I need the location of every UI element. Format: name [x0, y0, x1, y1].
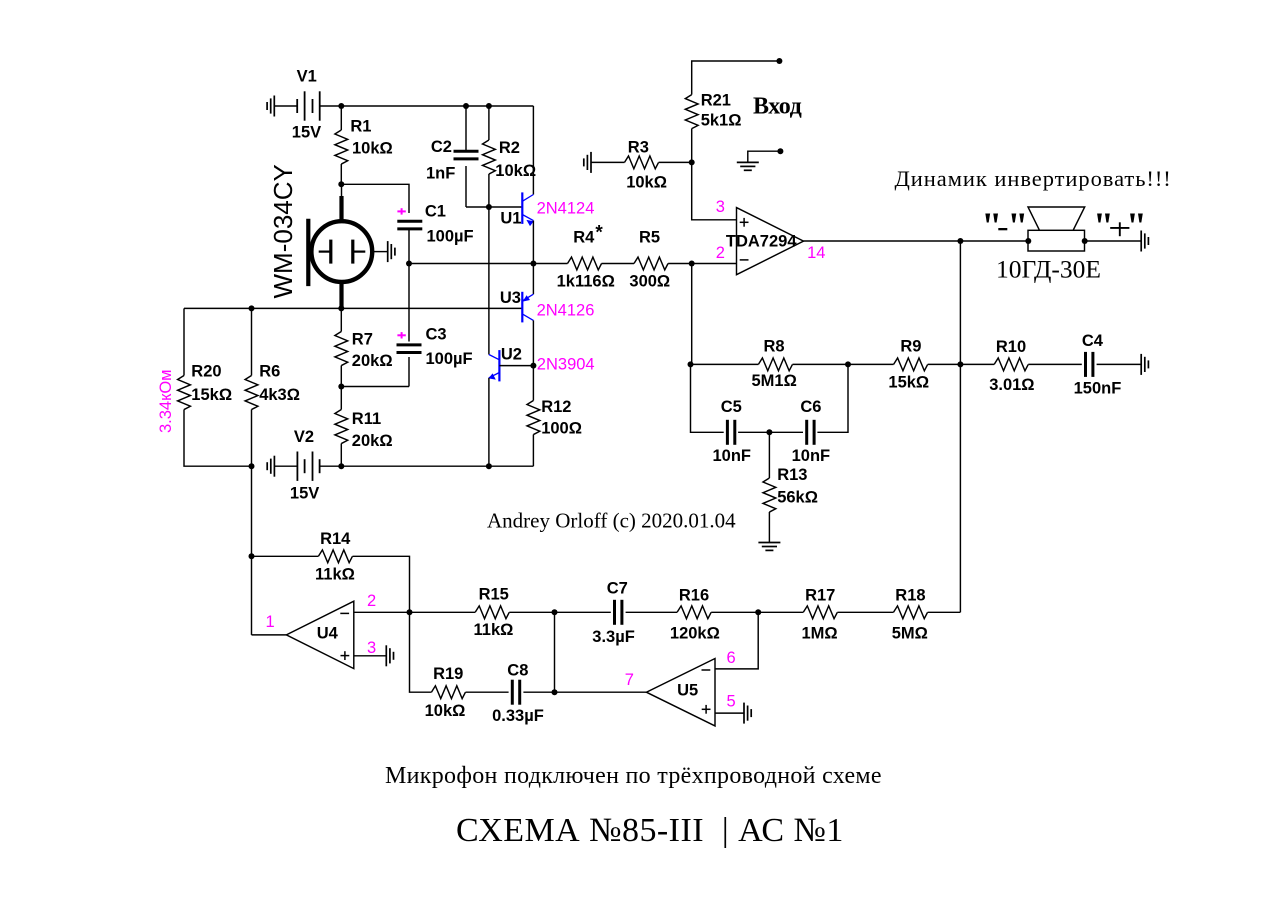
microphone WM-034CY: [268, 164, 388, 308]
ground (R13): [758, 543, 780, 551]
wire (node A to C1 branch): [341, 184, 409, 213]
wire (R19 branch): [410, 612, 432, 692]
node (R20 / R6 / U4 column): [249, 463, 255, 469]
svg-text:R3: R3: [628, 139, 649, 157]
svg-text:7: 7: [625, 671, 634, 689]
wire (speaker to ground): [1085, 240, 1142, 242]
svg-text:10kΩ: 10kΩ: [626, 173, 667, 191]
ground (C4): [1141, 354, 1148, 375]
wire (R2 node down to U2 collector): [488, 207, 490, 355]
svg-text:2: 2: [367, 592, 376, 610]
wire (R16 to R17): [711, 611, 803, 613]
label "-": [981, 206, 1028, 248]
node (R2 top): [486, 103, 492, 109]
node (U2 base / R12 top): [530, 363, 536, 369]
resistor R2 leads: [488, 106, 490, 140]
svg-text:U3: U3: [500, 289, 521, 307]
wire (C1 bottom node to R4): [409, 263, 568, 265]
resistor R20: [178, 363, 232, 410]
resistor R20 leads: [183, 308, 185, 375]
svg-text:C1: C1: [425, 203, 446, 221]
capacitor C1 leads: [408, 228, 410, 263]
resistor R11: [335, 410, 393, 450]
speaker 10ГД-30Е: [996, 207, 1101, 284]
svg-text:10ГД-30Е: 10ГД-30Е: [996, 255, 1101, 284]
svg-text:C7: C7: [607, 579, 628, 597]
svg-text:5k1Ω: 5k1Ω: [701, 111, 742, 129]
wire (R17 to R18): [837, 611, 893, 613]
node (C8 / U5 output): [552, 689, 558, 695]
wire (C3 branch): [408, 264, 410, 342]
wire (V2 to bottom rail): [320, 465, 341, 467]
resistor R4: [557, 223, 615, 291]
node (R5 / op-amp inverting input / feedback): [689, 261, 695, 267]
svg-text:R16: R16: [679, 587, 709, 605]
resistor R5: [629, 229, 670, 291]
svg-text:5MΩ: 5MΩ: [892, 624, 928, 642]
svg-text:R19: R19: [433, 665, 463, 683]
node (U1 emitter / U3 emitter / R4): [530, 261, 536, 267]
svg-text:U4: U4: [317, 624, 339, 642]
svg-text:U2: U2: [501, 346, 522, 364]
svg-text:R5: R5: [639, 229, 660, 247]
resistor R14: [315, 530, 355, 584]
resistor R1 leads: [340, 106, 342, 130]
svg-text:0.33µF: 0.33µF: [492, 707, 544, 725]
node (V2 / R11 bottom): [338, 463, 344, 469]
resistor R1: [335, 118, 393, 164]
transistor U1 2N4124 (NPN): [500, 192, 594, 227]
node (R6 top): [249, 305, 255, 311]
node (R7 / R11 / C3): [338, 384, 344, 390]
wire (R19 to C8): [466, 691, 509, 693]
svg-text:R1: R1: [350, 118, 371, 136]
svg-text:R17: R17: [805, 587, 835, 605]
wire (R5 to inverting input node): [668, 263, 736, 265]
node (R8 / R9 / C6 branch): [845, 361, 851, 367]
svg-text:5M1Ω: 5M1Ω: [752, 372, 797, 390]
node (R14 / U4 output column): [249, 553, 255, 559]
svg-text:150nF: 150nF: [1074, 379, 1122, 397]
svg-text:C3: C3: [426, 325, 447, 343]
svg-text:5: 5: [727, 693, 736, 711]
wire (mic bottom rail): [184, 307, 522, 309]
svg-text:100µF: 100µF: [426, 350, 473, 368]
resistor R19: [425, 665, 466, 720]
ground (Вход): [737, 162, 759, 170]
node (output / feedback column): [957, 238, 963, 244]
node (U4 -in / R14 / R19 branch): [407, 609, 413, 615]
ground (microphone): [388, 241, 395, 262]
svg-text:TDA7294: TDA7294: [726, 233, 797, 251]
svg-text:2: 2: [716, 244, 725, 262]
svg-text:U1: U1: [500, 210, 521, 228]
wire (U3 collector to U2 base node): [532, 320, 534, 365]
wire (U1 emitter down to R4 node): [532, 221, 534, 264]
svg-text:R20: R20: [191, 363, 221, 381]
svg-text:R9: R9: [900, 338, 921, 356]
Вход ground terminal: [777, 148, 783, 154]
wire (left column down to U4): [251, 466, 253, 556]
wire (U5 output): [555, 691, 647, 693]
wire (R4 to R5): [602, 263, 635, 265]
wire (C4 to ground): [1097, 363, 1142, 365]
transistor U3 2N4126 (PNP): [532, 264, 534, 295]
wire (U4 - input to R15): [354, 611, 475, 613]
wire (op-amp output to speaker): [804, 240, 1029, 242]
wire (U5 - input branch): [715, 612, 758, 669]
svg-text:C5: C5: [721, 398, 742, 416]
svg-text:10nF: 10nF: [792, 447, 831, 465]
svg-text:C4: C4: [1082, 332, 1104, 350]
wire (C7/C8 vertical link): [554, 612, 556, 692]
wire (U1 collector from top rail): [532, 106, 534, 195]
svg-text:V1: V1: [297, 68, 317, 86]
svg-text:WM-034CY: WM-034CY: [268, 164, 298, 298]
svg-text:R13: R13: [777, 466, 807, 484]
wire (R8 to node): [793, 363, 894, 365]
wire (R18 to feedback column): [928, 611, 961, 613]
svg-text:11kΩ: 11kΩ: [474, 621, 514, 639]
wire (node to U1 base): [489, 206, 522, 208]
svg-text:R4: R4: [573, 229, 595, 247]
svg-text:R7: R7: [352, 331, 373, 349]
resistor R16: [670, 587, 720, 643]
node (R16 / R17 / U5 -in): [755, 609, 761, 615]
ground (U4 + input): [386, 645, 393, 666]
capacitor C4: [1074, 332, 1122, 397]
ground (R3): [584, 152, 591, 173]
resistor R7 leads: [340, 308, 342, 331]
svg-text:56kΩ: 56kΩ: [777, 488, 818, 506]
ground (U5 + input): [744, 703, 751, 724]
capacitor C5: [713, 398, 752, 465]
capacitor C7: [592, 579, 635, 646]
wire (C8 to U5 output node): [523, 691, 554, 693]
svg-text:*: *: [595, 223, 603, 244]
svg-text:C8: C8: [507, 661, 528, 679]
svg-text:R18: R18: [895, 587, 925, 605]
op-amp U4: [266, 592, 377, 669]
svg-text:100µF: 100µF: [427, 227, 474, 245]
wire (R21 to R3 node): [691, 129, 693, 163]
capacitor C1: [397, 203, 473, 246]
resistor R21: [685, 92, 741, 130]
resistor R3 leads: [591, 161, 625, 163]
node A (R1 bottom / mic top): [338, 181, 344, 187]
capacitor C8: [492, 661, 544, 725]
svg-text:3.01Ω: 3.01Ω: [989, 376, 1034, 394]
wire (feedback column vertical): [959, 241, 961, 364]
node (C5 / C6 / R13): [766, 429, 772, 435]
svg-text:120kΩ: 120kΩ: [670, 624, 720, 642]
wire (U4 output to column): [252, 634, 287, 636]
svg-text:2N4124: 2N4124: [537, 199, 595, 217]
svg-text:1MΩ: 1MΩ: [802, 624, 838, 642]
svg-text:": ": [1007, 206, 1028, 248]
svg-text:C6: C6: [800, 398, 821, 416]
svg-text:10nF: 10nF: [713, 447, 752, 465]
node (R8 / C5 branch): [688, 361, 694, 367]
resistor R12 leads: [532, 366, 534, 401]
wire (inv node down to R8 row): [691, 264, 693, 365]
capacitor C6: [792, 398, 831, 465]
svg-text:15kΩ: 15kΩ: [191, 386, 232, 404]
resistor R13 leads: [768, 432, 770, 478]
node (R15 / C7 / C8 branch): [552, 609, 558, 615]
label "+": [1093, 206, 1147, 248]
svg-text:V2: V2: [294, 428, 314, 446]
svg-text:10kΩ: 10kΩ: [425, 702, 466, 720]
capacitor C3: [397, 325, 473, 368]
svg-text:20kΩ: 20kΩ: [352, 432, 393, 450]
svg-text:Вход: Вход: [753, 93, 802, 119]
wire Вход terminal top: [692, 61, 780, 95]
svg-text:10kΩ: 10kΩ: [495, 162, 536, 180]
svg-text:20kΩ: 20kΩ: [352, 352, 393, 370]
ground (V2): [267, 456, 274, 477]
svg-text:3.34кОм: 3.34кОм: [157, 369, 175, 433]
node (C2 / R2 / U1 base): [486, 204, 492, 210]
wire (R14 to inv input column): [353, 556, 410, 612]
power rail V1 top wire: [274, 105, 297, 107]
resistor R10: [989, 338, 1034, 394]
svg-text:4k3Ω: 4k3Ω: [259, 386, 300, 404]
resistor R2: [483, 139, 537, 180]
wire (R15 to C7 node): [509, 611, 611, 613]
svg-text:R14: R14: [320, 530, 351, 548]
wire (R10 to C4): [1028, 363, 1082, 365]
node (C2 top): [463, 103, 469, 109]
resistor R11 leads: [340, 387, 342, 410]
svg-text:R11: R11: [352, 410, 381, 428]
svg-text:10kΩ: 10kΩ: [352, 140, 393, 158]
svg-text:1: 1: [266, 613, 275, 631]
node (V1 / R1 top): [338, 103, 344, 109]
svg-text:2N4126: 2N4126: [537, 302, 595, 320]
svg-text:Микрофон подключен по трёхпров: Микрофон подключен по трёхпроводной схем…: [385, 763, 882, 789]
resistor R7: [335, 331, 393, 371]
resistor R15: [474, 586, 514, 639]
wire (U5 + input to ground): [715, 712, 744, 714]
resistor R17: [802, 587, 838, 643]
wire (C5 to C6): [738, 431, 803, 433]
node (R21 / R3 / op-amp + input): [689, 159, 695, 165]
wire (R9 to feedback column): [928, 363, 995, 365]
resistor R13: [763, 466, 818, 512]
node (C1 / C3 branch): [406, 261, 412, 267]
svg-text:6: 6: [727, 649, 736, 667]
svg-text:R15: R15: [479, 586, 509, 604]
svg-text:15V: 15V: [292, 124, 321, 142]
capacitor C2: [426, 138, 479, 183]
wire (bottom rail): [341, 465, 533, 467]
svg-text:U5: U5: [677, 682, 698, 700]
svg-text:11kΩ: 11kΩ: [315, 565, 355, 583]
node (U2 emitter at bottom rail): [486, 463, 492, 469]
svg-text:R10: R10: [996, 338, 1026, 356]
svg-text:2N3904: 2N3904: [537, 356, 595, 374]
svg-text:14: 14: [807, 244, 825, 262]
wire (C7 to R16): [626, 611, 678, 613]
svg-text:R12: R12: [541, 398, 571, 416]
svg-text:C2: C2: [431, 138, 452, 156]
svg-text:Динамик инвертировать!!!: Динамик инвертировать!!!: [895, 166, 1172, 191]
op-amp U5: [625, 649, 736, 726]
svg-text:15V: 15V: [290, 485, 319, 503]
op-amp U1 TDA7294: [716, 198, 826, 275]
resistor R9: [888, 338, 929, 392]
battery V1 15V: [292, 68, 321, 142]
capacitor C2 branch wire: [465, 106, 467, 151]
svg-text:15kΩ: 15kΩ: [888, 373, 929, 391]
resistor R6: [245, 363, 300, 410]
svg-text:R21: R21: [701, 92, 731, 110]
resistor R18: [892, 587, 928, 643]
svg-text:R6: R6: [259, 363, 280, 381]
svg-text:R2: R2: [499, 139, 520, 157]
resistor R8: [752, 338, 797, 390]
resistor R12: [527, 398, 582, 438]
svg-text:R8: R8: [764, 338, 785, 356]
svg-text:1nF: 1nF: [426, 165, 455, 183]
svg-text:Andrey Orloff (c) 2020.01.04: Andrey Orloff (c) 2020.01.04: [487, 509, 736, 533]
wire (R8 node down to C5): [691, 364, 724, 432]
resistor R3: [625, 139, 667, 192]
transistor U2 2N3904 (NPN, mirrored): [488, 346, 594, 382]
svg-text:300Ω: 300Ω: [629, 273, 670, 291]
wire (node to R8): [691, 363, 759, 365]
svg-text:3.3µF: 3.3µF: [592, 628, 635, 646]
wire (U4 + input to ground): [354, 655, 387, 657]
ground (speaker): [1141, 231, 1148, 252]
resistor R14 leads: [252, 555, 319, 557]
resistor R6 leads: [251, 308, 253, 375]
ground (V1): [267, 96, 274, 117]
svg-text:1k116Ω: 1k116Ω: [557, 273, 615, 291]
wire (C6 up to R8/R9 node): [817, 364, 848, 432]
wire (U2 emitter to bottom rail): [488, 378, 490, 466]
battery V2 15V: [274, 428, 319, 503]
node (mic / R7 top): [338, 305, 344, 311]
svg-text:3: 3: [716, 198, 725, 216]
svg-text:3: 3: [367, 639, 376, 657]
svg-text:": ": [981, 206, 1002, 248]
svg-text:СХЕМА №85-III | АС №1: СХЕМА №85-III | АС №1: [456, 812, 844, 849]
wire (node down to op-amp + input): [692, 162, 737, 219]
svg-text:100Ω: 100Ω: [541, 419, 582, 437]
node (R9 / R10 / feedback column): [957, 361, 963, 367]
